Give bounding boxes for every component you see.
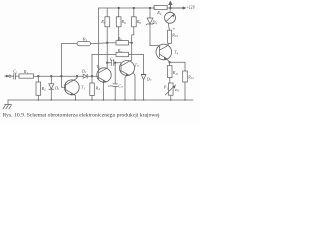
svg-text:R1: R1 <box>23 69 29 75</box>
capacitor C2 <box>111 60 121 66</box>
labels <box>13 5 195 93</box>
resistor R7 <box>92 52 144 74</box>
diode D2 <box>83 74 87 78</box>
node D1 junction <box>51 75 53 77</box>
wire T4 collector to R10 <box>167 43 170 46</box>
top supply rail <box>99 7 184 9</box>
node rail dot above B <box>118 7 120 9</box>
node D4 rail junction <box>149 7 151 9</box>
svg-text:D1: D1 <box>54 85 60 91</box>
svg-text:R6: R6 <box>117 36 123 42</box>
capacitor C1 <box>14 73 19 79</box>
wire input line to T2 base <box>62 75 99 77</box>
svg-text:+12V: +12V <box>187 5 196 11</box>
node T4 emitter junction <box>169 62 171 64</box>
svg-text:R6: R6 <box>121 19 127 25</box>
wire R6 right to V3 <box>129 42 132 44</box>
wire rail left end down to T2 base <box>98 8 100 70</box>
resistor R5b (vertical box B) <box>116 8 121 41</box>
svg-text:R2: R2 <box>41 86 47 92</box>
wire T1 emitter to ground <box>74 95 76 100</box>
svg-text:R9: R9 <box>156 10 162 16</box>
resistor R8 (vertical box C) <box>132 8 137 35</box>
svg-text:R4: R4 <box>95 85 101 91</box>
svg-text:T1: T1 <box>81 85 85 91</box>
svg-text:D3: D3 <box>146 76 152 82</box>
wire to +12V with arrowhead <box>170 7 185 9</box>
svg-text:P1: P1 <box>163 85 169 91</box>
svg-text:R3: R3 <box>82 37 88 43</box>
wire T1 collector up to input line <box>74 76 77 80</box>
resistor R1 <box>19 74 34 78</box>
resistor R11 <box>168 62 173 83</box>
svg-text:R5: R5 <box>100 19 106 25</box>
wire junction up to R3 <box>61 44 77 77</box>
node R2 junction <box>38 75 40 77</box>
wire R3 to R6 line <box>91 42 117 45</box>
svg-text:D2: D2 <box>81 68 87 74</box>
resistor R6 <box>116 41 129 45</box>
svg-text:D4: D4 <box>151 20 157 26</box>
wire T4 emitter junction <box>166 58 169 62</box>
capacitor C3 <box>113 84 118 100</box>
node R6 right junction <box>131 42 133 44</box>
ground symbol <box>3 100 12 109</box>
diode D1 <box>49 76 54 100</box>
transistor T1 <box>64 80 79 95</box>
wire T3 emitter down <box>125 76 127 101</box>
node C3 top junction <box>114 62 116 64</box>
node C2 left junction <box>106 62 108 64</box>
svg-text:R8: R8 <box>136 19 142 25</box>
wire R1 to junction <box>34 75 63 77</box>
svg-text:Rys. 10.9. Schemat obrotomierz: Rys. 10.9. Schemat obrotomierza elektron… <box>3 113 161 119</box>
svg-text:C3: C3 <box>118 83 123 89</box>
svg-text:R7: R7 <box>117 48 123 54</box>
node T1 collector junction <box>76 75 78 77</box>
resistor R10 <box>168 23 172 43</box>
wire T1 base <box>61 76 65 87</box>
transistor T3 <box>120 61 135 76</box>
node R4 top junction <box>91 75 93 77</box>
resistor R4 <box>90 83 95 100</box>
resistor R12 <box>183 71 188 100</box>
wire T2 emitter to ground <box>103 82 106 100</box>
wire T2 collector up <box>106 67 108 70</box>
resistor R9 <box>154 5 167 9</box>
svg-text:R10: R10 <box>171 32 178 38</box>
wire R7 corner down through input line <box>91 55 93 84</box>
resistor R5 (vertical, top) <box>105 8 110 68</box>
svg-text:R13: R13 <box>174 88 180 93</box>
svg-text:C1: C1 <box>13 69 18 75</box>
svg-text:100: 100 <box>108 84 113 88</box>
wire to C2 <box>107 62 111 64</box>
transistor T2 <box>97 68 111 83</box>
meter M <box>165 8 176 23</box>
node R6 left junction <box>106 42 108 44</box>
wire emitter right branch <box>170 62 185 71</box>
diode D3 <box>141 74 146 100</box>
transistor T4 <box>156 44 172 60</box>
node rail junctions <box>38 99 186 101</box>
svg-text:T4: T4 <box>174 50 178 56</box>
svg-text:R11: R11 <box>172 70 179 76</box>
svg-text:T3: T3 <box>135 62 139 68</box>
wire C3 chain <box>114 63 116 84</box>
node meter rail junction <box>170 7 172 9</box>
potentiometer P1 <box>165 83 175 100</box>
svg-text:R12: R12 <box>187 74 194 80</box>
input terminal <box>5 75 14 77</box>
resistor R3 <box>77 41 91 45</box>
node rail dot above C <box>133 7 135 9</box>
svg-text:C2: C2 <box>110 56 115 62</box>
resistor R2 <box>36 76 41 100</box>
svg-text:T2: T2 <box>96 64 100 70</box>
diode D4 zener <box>146 8 160 48</box>
terminal arrow up <box>169 2 172 8</box>
wire T3 right side down <box>133 73 135 100</box>
ground rail <box>8 99 193 101</box>
node input/R3/T1-base junction <box>61 75 63 77</box>
wire T3 collector up V3 <box>129 35 134 61</box>
svg-text:m: m <box>173 27 175 30</box>
